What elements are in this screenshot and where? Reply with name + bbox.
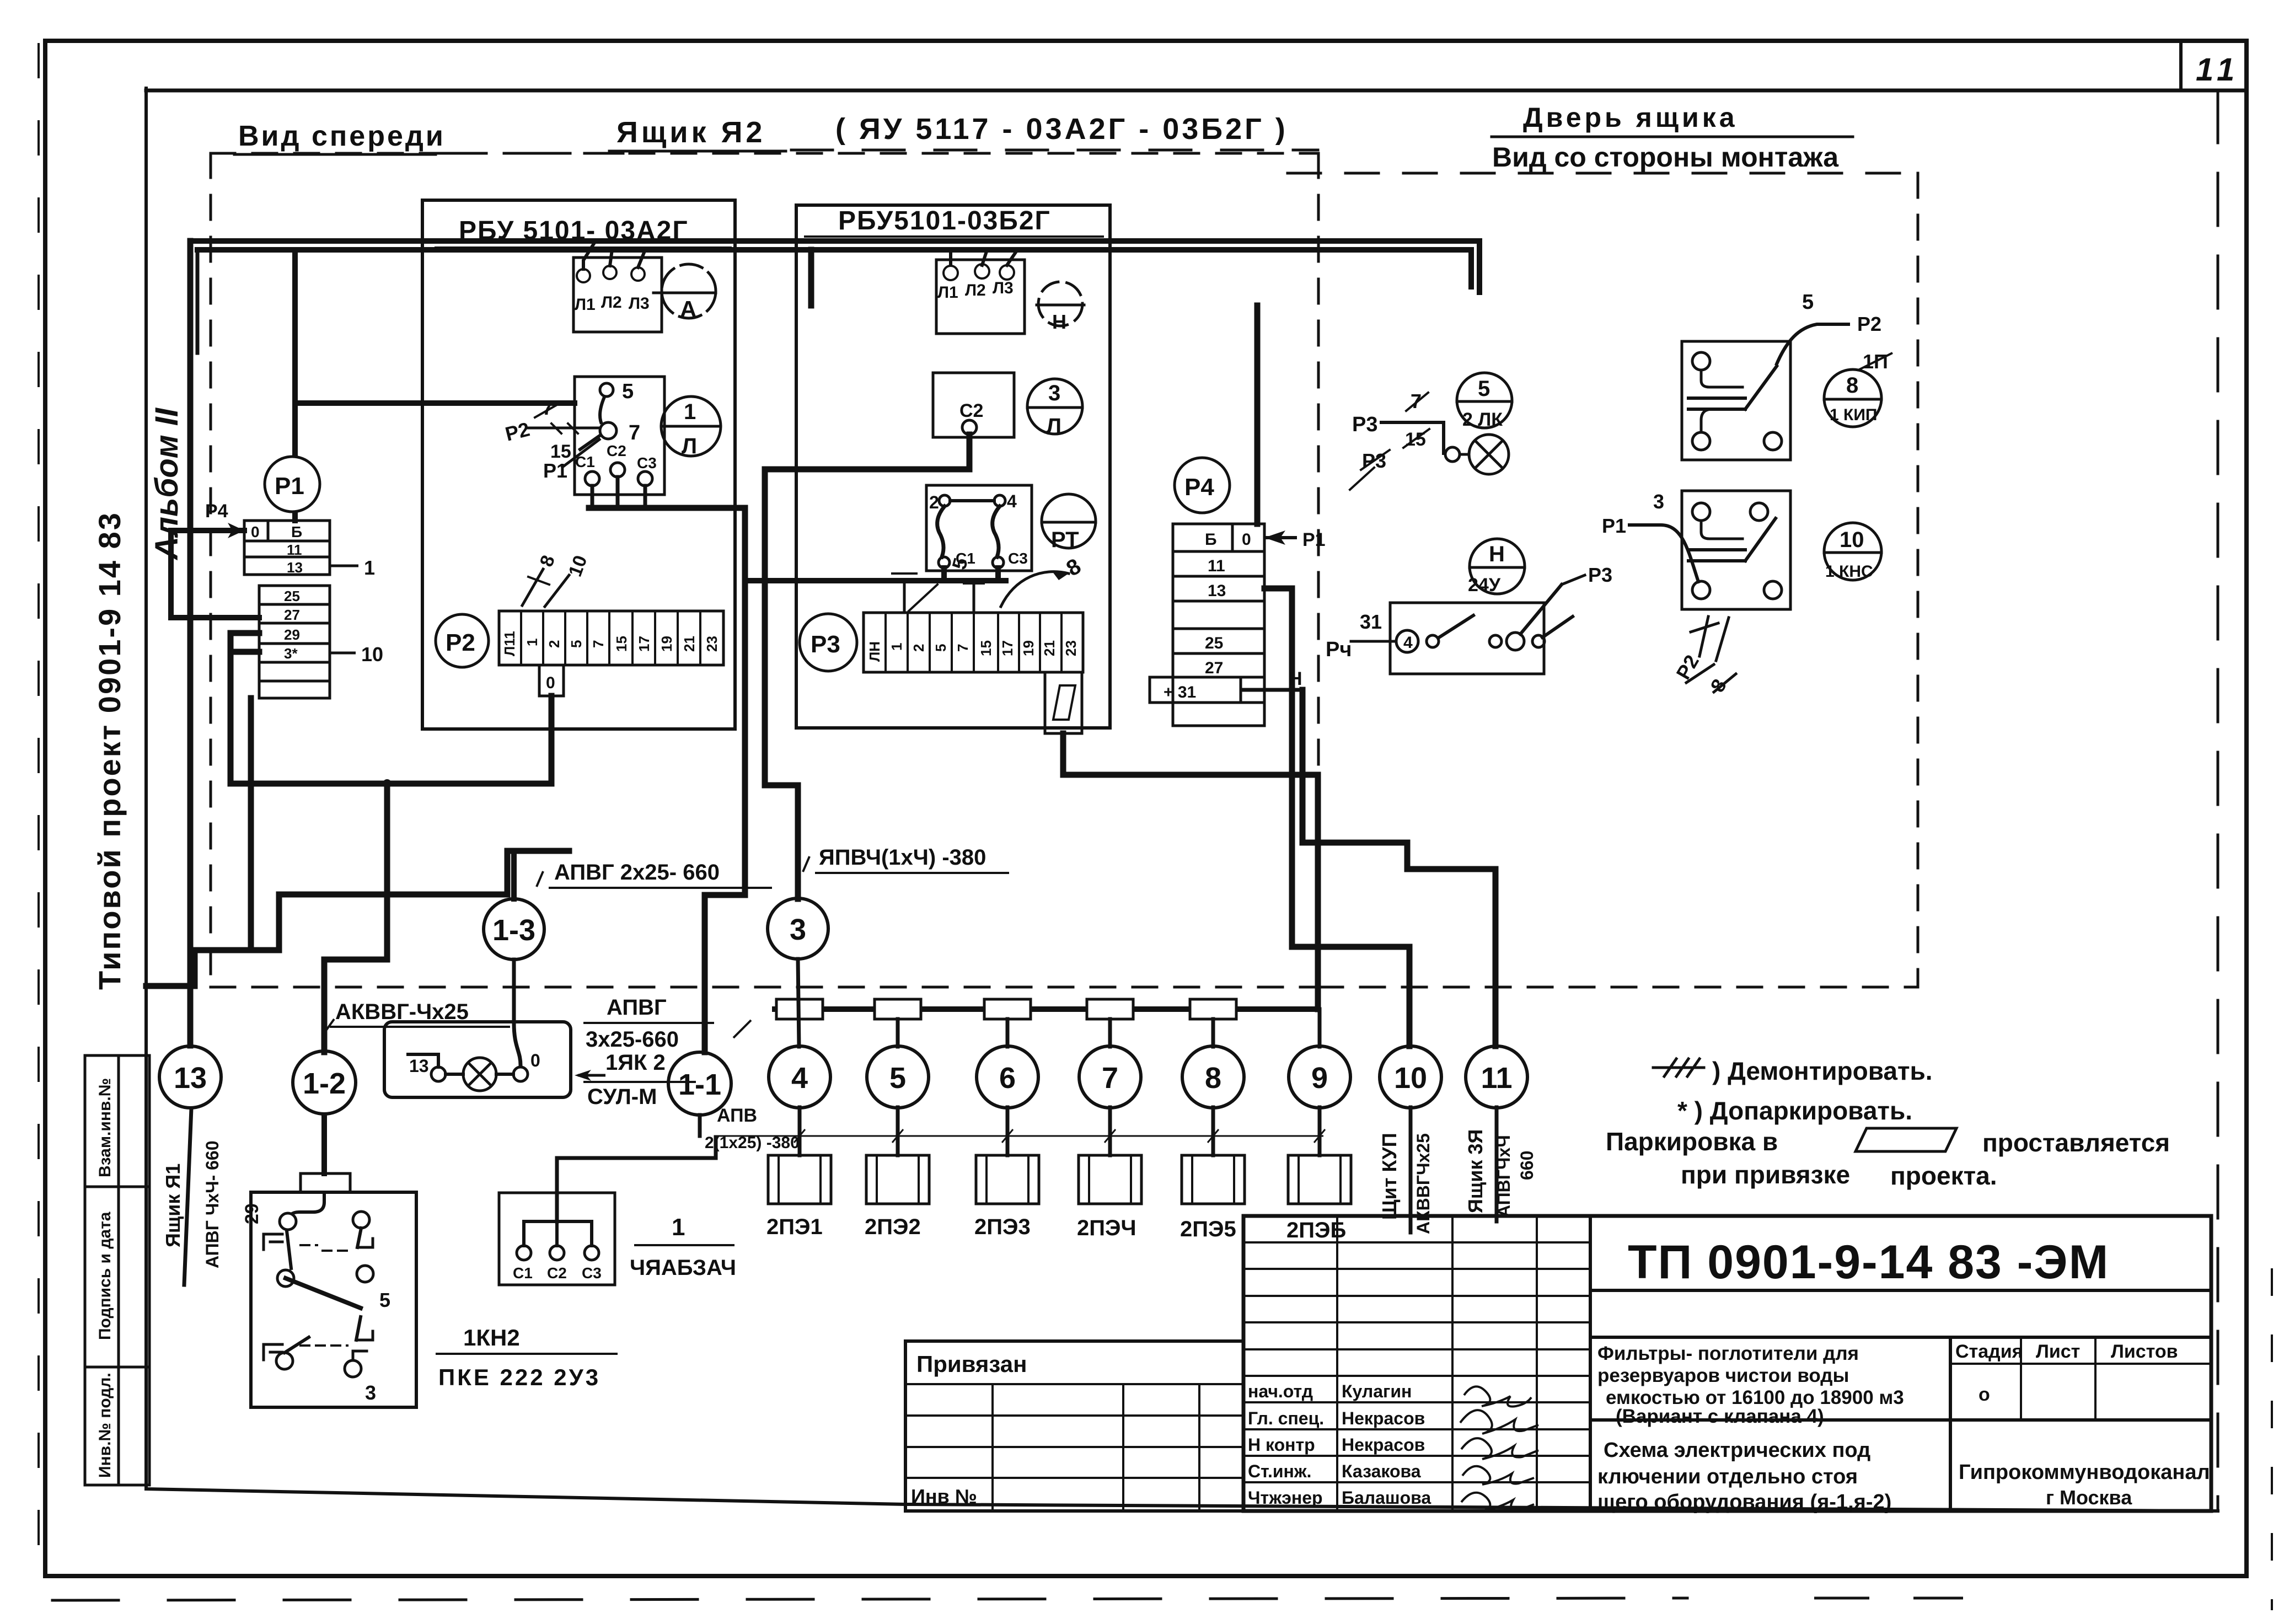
title block outer [905, 1216, 2211, 1511]
svg-text:Инв.№ подл.: Инв.№ подл. [96, 1373, 114, 1478]
svg-text:АПВ: АПВ [717, 1105, 757, 1126]
svg-text:Л3: Л3 [993, 279, 1014, 297]
relay circle P1 [265, 457, 320, 512]
svg-text:2: 2 [910, 644, 927, 652]
svg-text:Рч: Рч [1326, 638, 1352, 661]
svg-text:10: 10 [1840, 528, 1864, 552]
svg-text:5: 5 [379, 1289, 390, 1311]
front view dashed enclosure [211, 152, 1318, 155]
svg-text:Фильтры- поглотители для: Фильтры- поглотители для [1597, 1343, 1859, 1364]
door view: contact unit 1KNS [1629, 491, 1790, 609]
svg-text:Л: Л [1046, 414, 1061, 438]
svg-text:Вид со стороны монтажа: Вид со стороны монтажа [1492, 142, 1839, 173]
wire: circle 1-3 drop into SUL-M [514, 960, 521, 1065]
indicator circle 3/L [1027, 379, 1082, 434]
svg-text:Л3: Л3 [629, 294, 650, 313]
svg-text:Р4: Р4 [1184, 474, 1214, 501]
lamp unit SUL-M box [384, 1022, 571, 1097]
svg-text:Инв №: Инв № [911, 1485, 977, 1508]
svg-text:19: 19 [1020, 640, 1037, 656]
wire: unit2 top bus riser to P4 [811, 250, 1257, 524]
cable line 380 [714, 1135, 1323, 1137]
svg-text:4: 4 [791, 1062, 808, 1095]
svg-text:13: 13 [174, 1062, 207, 1095]
svg-text:17: 17 [636, 636, 652, 652]
svg-text:23: 23 [1063, 640, 1079, 656]
svg-text:Вид спереди: Вид спереди [238, 120, 446, 152]
svg-text:11: 11 [1208, 557, 1225, 575]
wire: drops from circles to boxes 2PE [798, 1107, 802, 1155]
fuse 8 [1190, 999, 1236, 1019]
2PE terminal boxes [768, 1155, 1351, 1204]
wire: marker box to fuse bus [1063, 733, 1318, 1009]
paper edge artifact bottom [52, 1598, 1687, 1600]
svg-text:Типовой проект 0901-9 14 83: Типовой проект 0901-9 14 83 [92, 511, 127, 990]
svg-text:1: 1 [684, 400, 696, 424]
svg-text:ЯПВЧ(1хЧ) -380: ЯПВЧ(1хЧ) -380 [819, 845, 986, 870]
svg-text:Б: Б [1205, 530, 1217, 549]
svg-text:1ЯК 2: 1ЯК 2 [605, 1050, 666, 1075]
svg-text:5: 5 [1478, 377, 1490, 401]
svg-text:7: 7 [590, 640, 607, 648]
wire: feed from P1 block to switch block [295, 250, 575, 521]
svg-text:АПВГЧхЧ: АПВГЧхЧ [1494, 1135, 1514, 1218]
label 1YAK2 SUL-M [575, 1070, 591, 1081]
wire: P1 riser and cross run [230, 633, 551, 1052]
svg-text:8: 8 [1205, 1062, 1221, 1095]
svg-text:Л1: Л1 [937, 283, 958, 302]
svg-text:4: 4 [1007, 491, 1017, 511]
wire: bus drop hooks into lamp block 2 [949, 250, 952, 265]
svg-text:Н: Н [1489, 542, 1505, 566]
svg-text:нач.отд: нач.отд [1248, 1381, 1313, 1401]
svg-text:Л2: Л2 [601, 293, 622, 312]
indicator circle N (unit 2) [1037, 282, 1084, 326]
svg-text:Б: Б [291, 523, 302, 540]
svg-text:Л11: Л11 [501, 631, 518, 656]
svg-text:Р2: Р2 [1857, 313, 1881, 335]
svg-text:8: 8 [1846, 373, 1858, 398]
svg-text:Кулагин: Кулагин [1342, 1381, 1412, 1401]
RBU box 2 (front view right unit) [796, 205, 1110, 728]
sheet number box divider [2179, 41, 2183, 90]
relay circle P3 [800, 614, 857, 671]
svg-text:Р1: Р1 [1602, 514, 1626, 537]
svg-text:Н: Н [1289, 668, 1302, 689]
door view: contact unit 1KIP [1682, 324, 1848, 460]
P4 tap P1 [1264, 536, 1297, 539]
svg-text:Листов: Листов [2111, 1341, 2178, 1362]
svg-text:Л2: Л2 [965, 281, 986, 299]
svg-text:17: 17 [999, 640, 1016, 656]
strip P2 cell labels [501, 631, 720, 656]
svg-text:Р1: Р1 [1302, 529, 1326, 550]
svg-text:13: 13 [1208, 582, 1226, 600]
svg-text:7: 7 [629, 421, 640, 444]
wire: circle 13 feed riser from supply bus [187, 241, 194, 1046]
svg-text:Некрасов: Некрасов [1342, 1408, 1425, 1428]
wire: tails below circles 10 11 13 [1409, 1107, 1413, 1232]
svg-text:( ЯУ 5117 - 03А2Г - 03Б2Г: ( ЯУ 5117 - 03А2Г - 03Б2Г ) [835, 112, 1288, 146]
svg-text:С3: С3 [1008, 550, 1028, 567]
parking marker box [1045, 672, 1082, 733]
lamp block 2 [936, 260, 1025, 334]
wire: C leads to collector bus [592, 477, 645, 508]
svg-text:1 КИП: 1 КИП [1830, 406, 1877, 424]
indicator circle 8/1KIP [1824, 369, 1881, 427]
svg-text:) Демонтировать.: ) Демонтировать. [1712, 1057, 1933, 1085]
strip P2 jumper arrows 8 and 10 [522, 569, 569, 607]
svg-text:1: 1 [672, 1214, 685, 1241]
svg-text:24У: 24У [1468, 575, 1501, 596]
svg-text:27: 27 [1205, 659, 1223, 677]
svg-text:2 ЛК: 2 ЛК [1462, 409, 1503, 430]
svg-text:СУЛ-М: СУЛ-М [587, 1085, 657, 1109]
svg-text:3: 3 [365, 1381, 376, 1404]
svg-text:Н: Н [1052, 310, 1066, 333]
svg-text:ЧЯАБЗАЧ: ЧЯАБЗАЧ [630, 1256, 736, 1280]
wire: bus drop hooks into lamp block 1 [583, 241, 596, 269]
svg-text:Щит КУП: Щит КУП [1378, 1133, 1401, 1220]
RBU box 1 (front view left unit) [422, 200, 735, 729]
svg-text:Ст.инж.: Ст.инж. [1248, 1461, 1311, 1481]
svg-text:11: 11 [287, 542, 302, 558]
svg-text:ТП 0901-9-14 83 -ЭМ: ТП 0901-9-14 83 -ЭМ [1628, 1236, 2109, 1289]
svg-text:Ящик Я1: Ящик Я1 [162, 1164, 184, 1247]
svg-text:1-3: 1-3 [492, 914, 535, 947]
indicator circle 1/L [661, 396, 721, 456]
title block main area lines [1590, 1290, 2211, 1511]
svg-text:21: 21 [681, 636, 698, 652]
door view: cam switch box [1351, 575, 1585, 674]
relay circle P4 [1175, 458, 1230, 513]
svg-text:2: 2 [546, 640, 562, 648]
svg-text:+ 31: + 31 [1164, 683, 1196, 701]
svg-text:29: 29 [242, 1203, 262, 1224]
svg-text:660: 660 [1517, 1151, 1537, 1180]
svg-text:5: 5 [622, 380, 634, 403]
svg-text:4: 4 [1403, 634, 1413, 652]
svg-text:Р3: Р3 [1352, 413, 1377, 436]
svg-text:* ) Допаркировать.: * ) Допаркировать. [1677, 1096, 1912, 1125]
fuse 5 [875, 999, 921, 1019]
svg-text:2ПЭ3: 2ПЭ3 [974, 1215, 1031, 1239]
fuse 6 [984, 999, 1031, 1019]
P1 tap 10 [330, 652, 356, 655]
svg-text:АКВВГ-Чх25: АКВВГ-Чх25 [335, 1000, 469, 1024]
wire: drop to circle 1-3 [511, 851, 517, 899]
svg-text:щего оборудования (я-1,я-2): щего оборудования (я-1,я-2) [1597, 1491, 1891, 1514]
svg-text:15: 15 [978, 640, 994, 656]
P1 tap 1 [330, 565, 358, 567]
title block scheme text [1597, 1439, 1891, 1514]
wire: collector bus to riser [589, 508, 745, 1052]
fuse bus [772, 1006, 1318, 1012]
svg-text:РБУ5101-03Б2Г: РБУ5101-03Б2Г [838, 206, 1051, 235]
indicator circle 5/2LK [1457, 373, 1512, 428]
svg-text:Взам.инв.№: Взам.инв.№ [96, 1078, 114, 1177]
svg-text:3*: 3* [284, 645, 298, 662]
indicator circle RT [1042, 494, 1096, 548]
svg-text:Лист: Лист [2036, 1341, 2080, 1362]
svg-text:1: 1 [888, 643, 905, 651]
svg-text:ЛН: ЛН [866, 641, 883, 662]
svg-text:3: 3 [790, 913, 806, 946]
svg-text:6: 6 [999, 1062, 1016, 1095]
svg-text:Стадия: Стадия [1955, 1341, 2023, 1362]
door view dashed enclosure [1917, 173, 1920, 987]
wire: feed to motor box from 1-1 [557, 1137, 716, 1221]
svg-text:С1: С1 [575, 453, 595, 470]
svg-text:Гл. спец.: Гл. спец. [1248, 1408, 1324, 1428]
privyazan box internals [905, 1384, 1243, 1511]
C2 block (unit 2) [933, 373, 1014, 437]
cable label APVCh(1x4)-380 [803, 856, 809, 872]
svg-text:3: 3 [1048, 381, 1060, 405]
svg-text:Н контр: Н контр [1248, 1435, 1315, 1455]
fuse 4 [776, 999, 823, 1019]
svg-text:5: 5 [932, 644, 949, 652]
contact block 2-4 C1 C3 (unit 2) [926, 485, 1032, 571]
terminal block P4 [1150, 524, 1264, 726]
svg-text:С3: С3 [637, 454, 657, 471]
inner frame bottom edge [146, 1489, 2218, 1511]
svg-text:Привязан: Привязан [916, 1351, 1027, 1377]
door view: strike marks below 1KNS [1686, 617, 1736, 692]
signatures [1460, 1386, 1538, 1511]
margin attribute boxes [84, 1055, 87, 1485]
svg-text:о: о [1979, 1384, 1990, 1405]
svg-text:Гипрокоммунводоканал: Гипрокоммунводоканал [1959, 1461, 2210, 1484]
svg-text:27: 27 [284, 607, 300, 623]
wire: drops from bus to circles 5-9 [184, 959, 1497, 1285]
svg-text:1-2: 1-2 [303, 1067, 346, 1100]
switch block (unit 1) [527, 377, 664, 495]
svg-text:Р3: Р3 [1362, 449, 1386, 472]
svg-text:13: 13 [287, 559, 303, 576]
title block approval rows [1248, 1381, 1431, 1508]
SUL-M internals [408, 1054, 528, 1091]
wire: long double supply bus across both units [190, 241, 1479, 292]
svg-text:Альбом II: Альбом II [149, 407, 185, 561]
svg-text:2ПЭ5: 2ПЭ5 [1180, 1217, 1236, 1241]
svg-text:Ящик 3Я: Ящик 3Я [1464, 1129, 1487, 1213]
switch 1KN2 box [251, 1192, 416, 1407]
svg-text:проекта.: проекта. [1890, 1161, 1997, 1190]
svg-text:21: 21 [1041, 640, 1058, 656]
strip P3 cell labels [866, 640, 1079, 662]
svg-text:А: А [680, 296, 696, 322]
svg-text:С1: С1 [513, 1264, 533, 1282]
notes: demontirovat [1653, 1059, 1704, 1076]
svg-text:Чтжэнер: Чтжэнер [1248, 1488, 1323, 1508]
svg-text:Дверь ящика: Дверь ящика [1523, 102, 1738, 133]
svg-text:15: 15 [613, 636, 630, 652]
svg-text:С2: С2 [547, 1264, 567, 1282]
svg-text:5: 5 [568, 640, 585, 648]
lamp block 1 [573, 258, 662, 332]
wire: frame staircase run [146, 851, 569, 986]
svg-text:Р3: Р3 [811, 631, 840, 658]
svg-text:АПВГ: АПВГ [607, 995, 667, 1020]
wire: P4 tap 13 to circle 10 [1264, 588, 1409, 1046]
svg-text:Р2: Р2 [446, 629, 475, 656]
svg-text:С2: С2 [607, 442, 626, 459]
terminal block P1 [244, 521, 330, 698]
wire: P4 loop at P1 block [171, 530, 259, 618]
svg-text:10: 10 [361, 643, 383, 666]
svg-text:Подпись и дата: Подпись и дата [96, 1212, 114, 1340]
svg-text:5: 5 [1802, 291, 1814, 314]
title block grid left small rows [1243, 1216, 1590, 1511]
switch 1KN2 internals [264, 1192, 373, 1377]
relay circle P2 [436, 614, 489, 667]
svg-text:при привязке: при привязке [1681, 1160, 1850, 1189]
svg-text:11: 11 [1481, 1062, 1512, 1095]
numbered circles bottom row [159, 898, 1527, 1115]
svg-text:25: 25 [1205, 634, 1223, 652]
svg-text:2ПЭ2: 2ПЭ2 [865, 1215, 921, 1239]
svg-text:5: 5 [889, 1062, 906, 1095]
strip P3 top taps N 5 8 [892, 571, 1069, 613]
paper edge artifact right [2271, 1268, 2273, 1610]
svg-text:2ПЭ1: 2ПЭ1 [766, 1215, 823, 1239]
svg-text:0: 0 [251, 523, 260, 540]
door view: lamp switch group P3 [1350, 393, 1509, 490]
svg-text:1-1: 1-1 [678, 1068, 721, 1101]
sheet top rule [146, 89, 2247, 93]
svg-text:Р1: Р1 [543, 459, 567, 482]
svg-text:Р4: Р4 [205, 501, 228, 522]
paper edge artifact left [37, 44, 40, 1577]
svg-text:Л: Л [682, 434, 697, 458]
svg-text:2ПЭЧ: 2ПЭЧ [1077, 1216, 1136, 1240]
terminal strip P2 [499, 611, 723, 665]
svg-text:7: 7 [1411, 390, 1422, 412]
wire: bus pair right ends dropping to door view lamp group [1477, 241, 1482, 292]
inner frame left edge [144, 88, 148, 1489]
svg-text:2: 2 [929, 492, 939, 512]
svg-text:11: 11 [2196, 52, 2240, 88]
svg-text:19: 19 [658, 636, 675, 652]
svg-text:0: 0 [1242, 530, 1251, 549]
cable label APVG 2x25-660 [537, 871, 543, 887]
svg-text:резервуаров чистои воды: резервуаров чистои воды [1597, 1365, 1849, 1386]
wire: C2 drop westward and down to circle 3 [765, 435, 969, 899]
svg-text:Р1: Р1 [275, 473, 304, 500]
svg-text:Ящик Я2: Ящик Я2 [616, 116, 765, 149]
svg-text:Схема электрических под: Схема электрических под [1604, 1439, 1870, 1462]
motor terminal box C1 C2 C3 [499, 1193, 615, 1285]
svg-text:Паркировка в: Паркировка в [1606, 1127, 1778, 1156]
svg-text:Л1: Л1 [575, 296, 596, 314]
svg-text:1КН2: 1КН2 [463, 1325, 520, 1350]
switch 1KN2 gland [301, 1173, 350, 1192]
svg-text:7: 7 [542, 396, 553, 419]
terminal strip P3 [864, 613, 1083, 672]
svg-text:9: 9 [1311, 1062, 1328, 1095]
wire: circle 11 riser [1302, 690, 1495, 1046]
svg-text:Некрасов: Некрасов [1342, 1435, 1425, 1455]
title block subject text [1597, 1343, 1904, 1427]
svg-text:АПВГ ЧхЧ- 660: АПВГ ЧхЧ- 660 [202, 1140, 222, 1268]
svg-text:1: 1 [364, 556, 375, 579]
svg-text:15: 15 [1405, 429, 1426, 450]
indicator circle N/24U [1470, 539, 1525, 594]
svg-text:0: 0 [546, 674, 555, 692]
svg-text:АПВГ 2х25- 660: АПВГ 2х25- 660 [554, 860, 720, 885]
svg-text:ПКЕ 222 2У3: ПКЕ 222 2У3 [438, 1364, 601, 1390]
svg-text:0: 0 [530, 1050, 540, 1070]
wire: circle 1-2 drop to switch 1KN2 [321, 1115, 327, 1173]
indicator circle 10/1KNS [1824, 523, 1881, 580]
svg-text:(Вариант с клапана 4): (Вариант с клапана 4) [1616, 1406, 1824, 1427]
svg-text:10: 10 [1394, 1062, 1427, 1095]
svg-text:С2: С2 [959, 400, 983, 421]
svg-text:1: 1 [524, 639, 540, 646]
svg-text:С3: С3 [582, 1264, 602, 1282]
svg-text:3: 3 [1653, 490, 1664, 513]
indicator circle A [653, 264, 716, 318]
svg-text:31: 31 [1360, 610, 1382, 633]
svg-text:7: 7 [955, 644, 971, 652]
svg-text:25: 25 [284, 588, 300, 604]
wire: P4 tap N [1241, 688, 1302, 692]
svg-text:23: 23 [704, 636, 720, 652]
inner frame right edge (broken in scan) [2217, 90, 2219, 1511]
svg-text:ключении отдельно стоя: ключении отдельно стоя [1597, 1465, 1858, 1488]
svg-text:Р3: Р3 [1588, 564, 1612, 586]
wire: contact leads to lower bus [745, 568, 1006, 581]
svg-text:3х25-660: 3х25-660 [586, 1027, 679, 1052]
svg-text:1 КНС: 1 КНС [1825, 562, 1873, 581]
wire: circle 3 to circle 4 [798, 959, 799, 1047]
svg-text:г Москва: г Москва [2046, 1486, 2132, 1509]
svg-text:7: 7 [1102, 1062, 1118, 1095]
fuse 7 [1087, 999, 1133, 1019]
svg-text:РТ: РТ [1051, 528, 1079, 552]
svg-text:13: 13 [409, 1056, 429, 1076]
svg-text:29: 29 [284, 626, 300, 643]
strip P2 zero cell [539, 665, 564, 696]
svg-text:Балашова: Балашова [1342, 1488, 1431, 1508]
switch block C terminals [585, 463, 652, 486]
svg-text:2(1х25) -380: 2(1х25) -380 [705, 1134, 800, 1152]
svg-text:Казакова: Казакова [1342, 1461, 1421, 1481]
fold mark bottom [1814, 1597, 1963, 1600]
svg-text:АКВВГЧх25: АКВВГЧх25 [1413, 1133, 1433, 1234]
svg-text:проставляется: проставляется [1982, 1128, 2170, 1157]
